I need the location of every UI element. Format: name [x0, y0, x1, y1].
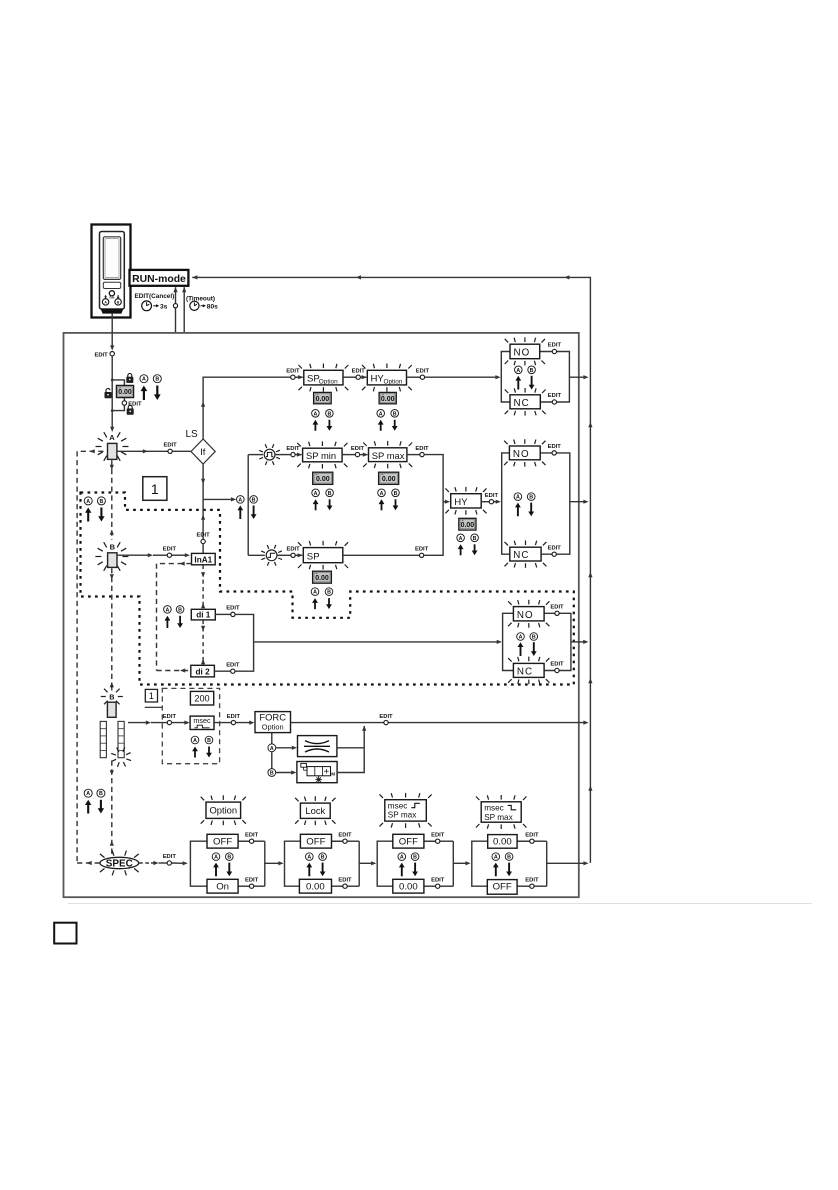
- svg-text:EDIT: EDIT: [431, 832, 445, 838]
- wire return to RUN-mode: [192, 277, 590, 863]
- svg-text:EDIT: EDIT: [352, 368, 366, 374]
- svg-text:A: A: [379, 411, 383, 417]
- device button A: [102, 299, 108, 305]
- svg-text:EDIT: EDIT: [227, 714, 241, 720]
- box delay-fall bottom: [487, 880, 517, 895]
- decision If: [191, 439, 215, 464]
- wire key B to InA1: [117, 554, 150, 556]
- A/B Lock: [306, 853, 314, 861]
- edit point row2 b: [342, 454, 355, 456]
- svg-text:0.00: 0.00: [493, 837, 512, 848]
- svg-text:A: A: [516, 495, 520, 501]
- box 200: [190, 691, 213, 705]
- wire row2 to HY junction: [424, 455, 443, 502]
- wire SPEC right: [139, 862, 149, 864]
- wire row3 up to HY junction: [424, 502, 443, 556]
- footnote marker: [54, 923, 76, 944]
- reference box 1: [143, 477, 167, 501]
- icon valve: [297, 762, 337, 783]
- icon pulse window: [264, 449, 275, 460]
- svg-text:B: B: [532, 635, 536, 641]
- svg-text:EDIT: EDIT: [415, 446, 429, 452]
- svg-text:NC: NC: [514, 398, 530, 409]
- svg-text:EDIT: EDIT: [548, 444, 562, 450]
- bar display left: [100, 721, 106, 757]
- svg-text:EDIT: EDIT: [163, 546, 177, 552]
- edit point row1 b: [343, 376, 356, 378]
- blinking key B lower: [118, 696, 123, 698]
- A/B under SP Option: [312, 410, 320, 418]
- svg-text:EDIT: EDIT: [525, 877, 539, 883]
- svg-text:NC: NC: [517, 666, 533, 677]
- svg-text:B: B: [473, 536, 477, 542]
- display SP Option value: [314, 392, 332, 403]
- blinking label delay-fall: [481, 802, 521, 822]
- svg-text:B: B: [321, 855, 325, 861]
- svg-text:EDIT: EDIT: [550, 662, 564, 668]
- edit point SPEC: [167, 861, 171, 865]
- svg-text:1: 1: [151, 481, 159, 497]
- padlock open left: [106, 388, 110, 392]
- svg-text:SP max: SP max: [484, 813, 513, 822]
- svg-text:80s: 80s: [207, 303, 218, 310]
- A/B under HY Option: [377, 410, 385, 418]
- svg-text:3s: 3s: [160, 303, 168, 310]
- edit point Lock bottom: [343, 884, 347, 888]
- A/B group 2: [514, 493, 522, 501]
- edit point key A: [168, 449, 172, 453]
- bar display right blinking: [118, 721, 124, 757]
- box FORC Option: [255, 712, 291, 733]
- svg-text:EDIT: EDIT: [245, 832, 259, 838]
- svg-text:EDIT: EDIT: [226, 606, 240, 612]
- svg-text:OFF: OFF: [493, 882, 512, 893]
- box Lock bottom: [299, 879, 331, 893]
- sensor device icon: [92, 225, 131, 318]
- edit point NO 1: [552, 349, 556, 353]
- edit point NC 2: [552, 552, 556, 556]
- svg-text:EDIT: EDIT: [379, 714, 393, 720]
- wire lower B to msec: [128, 722, 148, 724]
- svg-text:M: M: [331, 772, 335, 777]
- svg-text:A: A: [313, 590, 317, 596]
- box msec: [190, 716, 214, 729]
- svg-text:B: B: [155, 377, 159, 383]
- svg-text:EDIT: EDIT: [548, 343, 562, 349]
- edit point di 2: [214, 670, 230, 672]
- blinking label On-Off: [206, 802, 241, 818]
- A/B under HY: [457, 534, 465, 542]
- branch If to selector: [203, 498, 232, 500]
- svg-text:EDIT: EDIT: [287, 547, 301, 553]
- svg-text:0.00: 0.00: [315, 575, 329, 582]
- svg-text:0.00: 0.00: [316, 396, 330, 403]
- svg-text:OFF: OFF: [306, 837, 325, 848]
- blinking key A: [123, 446, 129, 448]
- box SP min: [303, 448, 343, 462]
- A/B left rail lower: [84, 789, 92, 797]
- dashed wire di1 to di2: [202, 620, 204, 665]
- svg-text:0.00: 0.00: [381, 396, 395, 403]
- edit point di 1: [215, 613, 230, 615]
- svg-text:A: A: [86, 791, 90, 797]
- padlock closed bottom: [128, 405, 132, 409]
- svg-text:B: B: [270, 771, 274, 777]
- box On-Off top: [207, 834, 238, 848]
- svg-text:SP: SP: [307, 551, 320, 562]
- dashed wire key B down: [111, 568, 113, 691]
- svg-text:EDIT: EDIT: [226, 662, 240, 668]
- blinking label delay-rise: [385, 800, 427, 821]
- icon flow restrictor: [298, 736, 337, 757]
- box InA1: [192, 553, 216, 564]
- wire group4 output: [547, 862, 586, 864]
- edit point NC 3: [555, 668, 559, 672]
- dashed wire key A to key B: [111, 460, 113, 540]
- A/B under msec: [191, 736, 199, 744]
- svg-text:Edit: Edit: [109, 295, 114, 299]
- dashed return InA1: [157, 563, 192, 565]
- svg-text:A: A: [214, 855, 218, 861]
- svg-text:B: B: [507, 855, 511, 861]
- svg-text:B: B: [327, 590, 331, 596]
- page shadow line: [68, 903, 812, 905]
- edit point msec a: [167, 720, 171, 724]
- svg-text:EDIT: EDIT: [550, 605, 564, 611]
- edit point Lock top: [343, 839, 347, 843]
- output group 1 brackets: [501, 352, 510, 403]
- wire SP to edit: [343, 554, 420, 556]
- group delay-fall brackets: [472, 841, 488, 886]
- box delay-fall top: [488, 835, 517, 849]
- display SP value: [313, 571, 332, 583]
- edit point above InA1: [202, 464, 204, 539]
- edit point NO 2: [552, 451, 556, 455]
- box NC 2: [510, 547, 541, 561]
- A/B di: [164, 606, 172, 614]
- box di 2: [191, 665, 215, 677]
- svg-text:B: B: [394, 491, 398, 497]
- box HY: [451, 494, 482, 508]
- svg-text:EDIT: EDIT: [95, 352, 109, 358]
- padlock closed top: [128, 374, 132, 378]
- svg-text:A: A: [400, 855, 404, 861]
- svg-text:0.00: 0.00: [382, 476, 396, 483]
- box NC 1: [510, 395, 540, 409]
- svg-text:A: A: [516, 368, 520, 374]
- edit point row3 a: [277, 554, 291, 556]
- svg-text:B: B: [252, 497, 256, 503]
- svg-text:msec: msec: [388, 801, 408, 810]
- svg-text:NC: NC: [513, 550, 529, 561]
- edit point row2 a: [275, 454, 291, 456]
- device button B: [115, 299, 121, 305]
- svg-text:B: B: [393, 411, 397, 417]
- lock branch wires: [112, 380, 124, 386]
- svg-text:HY: HY: [371, 374, 385, 385]
- display HY value: [459, 518, 476, 530]
- A/B selector rows: [237, 496, 245, 504]
- svg-text:0.00: 0.00: [316, 476, 330, 483]
- box SP max: [369, 448, 407, 462]
- dotted option region: [81, 493, 574, 685]
- svg-text:NO: NO: [513, 449, 530, 460]
- wire to FORC: [236, 722, 252, 724]
- device connector: [101, 309, 123, 313]
- svg-text:B: B: [99, 791, 103, 797]
- svg-text:EDIT: EDIT: [431, 877, 445, 883]
- svg-text:EDIT: EDIT: [548, 545, 562, 551]
- edit point delay-fall top: [530, 839, 534, 843]
- wire timeout: [183, 287, 185, 333]
- svg-text:A: A: [270, 746, 274, 752]
- svg-text:A: A: [314, 491, 318, 497]
- wire junction to HY: [443, 501, 446, 503]
- svg-text:HY: HY: [454, 497, 468, 508]
- svg-text:Option: Option: [209, 805, 237, 816]
- box SP Option: [304, 370, 343, 385]
- svg-text:NO: NO: [514, 348, 531, 359]
- svg-text:B: B: [328, 491, 332, 497]
- svg-text:EDIT: EDIT: [286, 446, 300, 452]
- svg-text:A: A: [193, 738, 197, 744]
- svg-text:EDIT: EDIT: [245, 877, 259, 883]
- svg-text:EDIT: EDIT: [548, 393, 562, 399]
- edit point NC 1: [552, 400, 556, 404]
- edit point On-Off top: [249, 839, 253, 843]
- svg-text:0.00: 0.00: [306, 882, 325, 893]
- svg-text:di 2: di 2: [196, 667, 211, 676]
- box SP: [303, 548, 343, 563]
- display locked value: [116, 385, 133, 397]
- svg-text:SP max: SP max: [372, 450, 405, 461]
- svg-text:B: B: [327, 411, 331, 417]
- A/B group 3: [517, 633, 525, 641]
- A/B delay-rise: [398, 853, 406, 861]
- edit point row3 b: [419, 553, 423, 557]
- clock 3s: [142, 301, 152, 311]
- svg-text:0.00: 0.00: [461, 522, 475, 529]
- svg-text:SP min: SP min: [306, 450, 336, 461]
- svg-text:B: B: [227, 855, 231, 861]
- svg-text:A: A: [238, 497, 242, 503]
- A/B under SP max: [378, 489, 386, 497]
- blinking SPEC: [119, 862, 121, 864]
- blinking label Lock: [300, 803, 330, 818]
- edit point row1 a: [291, 375, 295, 379]
- display SP min value: [313, 472, 333, 484]
- edit point FORC out: [384, 720, 388, 724]
- svg-text:On: On: [216, 882, 229, 893]
- icon step window: [266, 550, 277, 561]
- svg-text:200: 200: [194, 693, 209, 703]
- display SP max value: [379, 472, 399, 484]
- A/B left rail upper: [84, 497, 92, 505]
- svg-text:RUN-mode: RUN-mode: [132, 274, 186, 285]
- box NC 3: [513, 663, 544, 677]
- svg-text:A: A: [519, 635, 523, 641]
- edit point delay-fall bottom: [530, 884, 534, 888]
- wire row1 to output1: [425, 376, 497, 378]
- svg-text:A: A: [459, 536, 463, 542]
- svg-text:If: If: [200, 447, 206, 458]
- svg-text:EDIT: EDIT: [415, 547, 429, 553]
- A/B delay-fall: [492, 853, 500, 861]
- svg-text:NO: NO: [517, 610, 534, 621]
- svg-text:EDIT: EDIT: [485, 493, 499, 499]
- wire icons rejoin: [337, 747, 364, 749]
- group Lock brackets: [285, 841, 301, 886]
- svg-text:A: A: [494, 855, 498, 861]
- svg-text:B: B: [109, 692, 114, 701]
- edit point msec b: [214, 722, 231, 724]
- svg-text:LS: LS: [186, 429, 199, 440]
- svg-text:EDIT: EDIT: [338, 832, 352, 838]
- box di 1: [191, 609, 215, 620]
- svg-text:EDIT: EDIT: [197, 533, 211, 539]
- device display window: [103, 237, 120, 280]
- svg-text:Option: Option: [384, 379, 403, 386]
- box NO 1: [510, 344, 540, 359]
- dashed box msec: [162, 688, 219, 763]
- dashed left rail: [76, 451, 78, 863]
- cancel node: [173, 304, 177, 308]
- dashed wire SPEC left: [77, 862, 100, 864]
- svg-text:Option: Option: [262, 723, 284, 732]
- A/B under SP: [311, 588, 319, 596]
- di bracket to output 3: [235, 614, 254, 671]
- svg-text:B: B: [529, 495, 533, 501]
- svg-text:0.00: 0.00: [118, 389, 132, 396]
- reference 1 small: [145, 689, 157, 702]
- svg-text:SP max: SP max: [388, 811, 417, 820]
- output group 2 brackets: [502, 453, 510, 554]
- svg-text:di 1: di 1: [196, 611, 211, 620]
- box NO 3: [513, 607, 544, 621]
- svg-text:A: A: [165, 607, 169, 613]
- FORC branch A/B: [271, 733, 273, 769]
- frame EDIT-mode outer box: [64, 333, 579, 897]
- edit point On-Off bottom: [249, 884, 253, 888]
- svg-text:msec: msec: [193, 716, 211, 725]
- collector up arrows: [588, 422, 592, 427]
- A/B selector top-left: [140, 375, 148, 383]
- box delay-rise bottom: [393, 879, 424, 893]
- clock 80s: [190, 301, 199, 310]
- edit point key B: [167, 553, 171, 557]
- edit point lock: [122, 401, 126, 405]
- wire If up to row1: [203, 377, 291, 439]
- device status bar: [103, 282, 120, 288]
- svg-text:A: A: [307, 855, 311, 861]
- svg-text:EDIT: EDIT: [163, 714, 177, 720]
- dashed wire key A to left rail: [77, 450, 103, 452]
- svg-text:1: 1: [149, 691, 154, 702]
- dashed wire lower B down to SPEC: [111, 761, 113, 857]
- svg-text:EDIT: EDIT: [338, 877, 352, 883]
- svg-text:EDIT: EDIT: [416, 368, 430, 374]
- svg-text:B: B: [99, 499, 103, 505]
- svg-text:0.00: 0.00: [399, 882, 418, 893]
- group delay-rise brackets: [377, 841, 393, 886]
- svg-text:EDIT: EDIT: [128, 402, 142, 408]
- svg-text:B: B: [530, 368, 534, 374]
- svg-text:B: B: [207, 738, 211, 744]
- edit point HY: [481, 501, 489, 503]
- svg-text:Lock: Lock: [305, 805, 325, 816]
- svg-text:EDIT: EDIT: [525, 832, 539, 838]
- svg-text:A: A: [109, 433, 115, 442]
- svg-text:msec: msec: [484, 803, 504, 812]
- A/B On-Off: [212, 853, 220, 861]
- box On-Off bottom: [207, 879, 238, 893]
- svg-text:B: B: [178, 607, 182, 613]
- device edit button: [109, 291, 114, 296]
- box Lock top: [300, 834, 331, 848]
- svg-text:A: A: [142, 377, 146, 383]
- box RUN-mode: [130, 270, 189, 286]
- svg-text:Option: Option: [319, 379, 338, 386]
- box NO 2: [509, 446, 540, 460]
- svg-text:EDIT(Cancel): EDIT(Cancel): [135, 293, 175, 300]
- dashed wire InA1 to di1: [202, 565, 204, 610]
- edit point NO 3: [555, 611, 559, 615]
- wire entry down to key A: [111, 356, 113, 429]
- wire device to EDIT entry: [111, 314, 113, 349]
- A/B group 1: [515, 366, 523, 374]
- wire FORC output: [291, 722, 587, 724]
- svg-text:InA1: InA1: [194, 555, 212, 564]
- edit point row2 c: [407, 454, 420, 456]
- svg-text:OFF: OFF: [399, 837, 418, 848]
- edit point delay-rise top: [436, 839, 440, 843]
- svg-text:A: A: [313, 411, 317, 417]
- edit point row1 c: [407, 376, 421, 378]
- svg-text:A: A: [380, 491, 384, 497]
- edit point delay-rise bottom: [436, 884, 440, 888]
- svg-text:B: B: [110, 543, 116, 552]
- output group 3 brackets: [503, 613, 514, 670]
- box HY Option: [367, 370, 406, 385]
- svg-text:(Timeout): (Timeout): [186, 295, 215, 302]
- selector bracket rows 2-3: [247, 455, 249, 556]
- A/B under SP min: [312, 489, 320, 497]
- wire EDIT cancel: [175, 287, 177, 333]
- svg-text:EDIT: EDIT: [351, 446, 365, 452]
- svg-text:EDIT: EDIT: [163, 854, 177, 860]
- svg-text:SPEC: SPEC: [106, 858, 133, 869]
- svg-text:EDIT: EDIT: [286, 368, 300, 374]
- group On-Off brackets: [190, 841, 207, 886]
- box delay-rise top: [393, 834, 424, 848]
- wire key A to If: [117, 450, 167, 452]
- blinking key B: [122, 556, 128, 558]
- svg-text:FORC: FORC: [259, 712, 286, 723]
- svg-text:EDIT: EDIT: [164, 443, 178, 449]
- svg-text:A: A: [86, 499, 90, 505]
- display HY Option value: [379, 392, 396, 403]
- svg-text:OFF: OFF: [213, 837, 232, 848]
- svg-text:B: B: [413, 855, 417, 861]
